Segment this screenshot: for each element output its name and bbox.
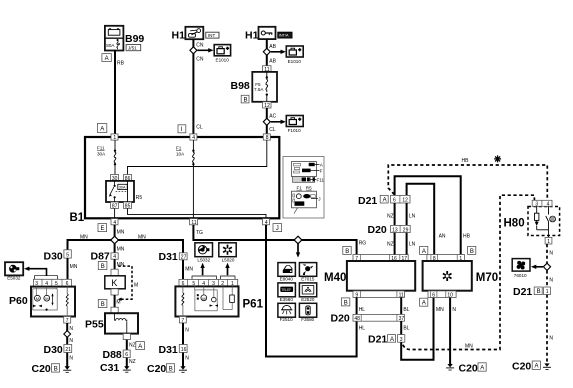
splice node on AB: [263, 48, 270, 55]
svg-text:N: N: [185, 356, 189, 362]
P60 motor symbol 1: [33, 295, 42, 307]
dashed wire N to D21 B: [546, 270, 548, 287]
svg-text:MN: MN: [185, 267, 193, 273]
svg-text:N: N: [549, 250, 553, 256]
H80 pin 1: [545, 237, 552, 245]
svg-text:CN: CN: [196, 57, 204, 63]
svg-text:F11: F11: [97, 146, 105, 151]
svg-text:J: J: [318, 197, 320, 202]
svg-text:BL: BL: [403, 307, 409, 313]
wire NZ to ground C31: [126, 358, 128, 367]
alarm ECU M40: [347, 261, 415, 291]
wire CN from H1 down: [192, 39, 194, 137]
svg-text:CL: CL: [269, 127, 276, 133]
svg-text:TG: TG: [196, 230, 203, 236]
pin 11 (B1 bottom): [190, 219, 198, 226]
relay R5 contact: [109, 181, 128, 202]
svg-text:L5032: L5032: [197, 257, 210, 262]
dashed wire N from H80 pin 1: [546, 244, 548, 263]
legend fuse row F11: [293, 177, 325, 183]
pin 1 (B1 top): [111, 134, 118, 141]
svg-text:RG: RG: [359, 241, 367, 247]
svg-text:P60: P60: [9, 295, 28, 307]
pin 11 (B98): [263, 66, 271, 73]
splice node on TG/RG: [294, 236, 302, 244]
M70 bottom connector strip pins 6 10: [428, 291, 456, 299]
wire BL M40 pin11 to D20 37: [400, 297, 402, 314]
connector code J/51: [126, 45, 141, 51]
svg-text:HL: HL: [359, 307, 366, 313]
svg-text:29: 29: [403, 227, 409, 233]
junction node MN: [111, 236, 119, 244]
svg-text:C20: C20: [512, 361, 531, 373]
svg-text:B: B: [101, 264, 105, 270]
P61 sensor symbol: [210, 297, 218, 307]
splice node on N: [64, 331, 71, 338]
svg-text:D30: D30: [44, 344, 63, 356]
svg-text:13: 13: [392, 227, 398, 233]
M70 top connector strip pins 8 1: [427, 255, 465, 262]
wire N to ground C20: [66, 353, 68, 367]
fan icon L5032: [195, 243, 213, 257]
connector letter B (below K): [98, 299, 107, 308]
wire RG to M40 pin 7: [298, 240, 357, 255]
svg-text:6: 6: [432, 292, 435, 298]
fusebox B1: [85, 137, 279, 218]
H80 pin strip 3 4: [532, 200, 552, 207]
P55 top pin: [111, 307, 118, 313]
svg-text:30A: 30A: [97, 152, 106, 157]
svg-text:A: A: [105, 56, 109, 62]
svg-text:48: 48: [354, 316, 360, 322]
svg-text:D30: D30: [44, 250, 63, 262]
connector letter B (above K): [98, 261, 107, 270]
icon grid: dome lamp F2510: [278, 303, 296, 317]
wire NZ from P55: [126, 340, 128, 350]
svg-text:MN: MN: [138, 234, 146, 240]
connector letter J (B1 bottom right): [273, 224, 282, 232]
svg-text:F11: F11: [317, 177, 325, 182]
SECTION: B1 fusebox: [70, 124, 282, 232]
svg-text:K: K: [111, 278, 117, 288]
wire BL to D21 pin 3: [400, 321, 402, 335]
connector letter A (B1 pin 1): [97, 124, 106, 133]
svg-text:MN: MN: [117, 246, 125, 252]
svg-text:B: B: [244, 97, 248, 103]
wire MN to thermostat: [114, 259, 116, 269]
svg-text:21: 21: [65, 347, 71, 353]
component location legend box: [283, 157, 324, 219]
svg-text:D21: D21: [513, 286, 532, 298]
svg-text:LN: LN: [409, 241, 416, 247]
svg-text:A: A: [383, 198, 387, 204]
arrow to F1010: [271, 120, 286, 124]
svg-text:B: B: [470, 249, 474, 255]
svg-text:P61: P61: [243, 299, 264, 311]
A/C control panel M70: [423, 261, 472, 291]
bracket over P61 pins 2-1: [221, 276, 236, 279]
wire pin8 to relay coil 86: [128, 140, 267, 174]
svg-text:H1: H1: [245, 30, 259, 42]
svg-text:RB: RB: [117, 61, 125, 67]
svg-text:12: 12: [402, 197, 408, 203]
rear window heater H80: [504, 207, 560, 236]
svg-text:MN: MN: [465, 344, 473, 350]
connector letter B (M40 pin 9): [341, 298, 349, 306]
M40 bottom connector strip pins 9 11: [353, 291, 404, 299]
legend text F1 R5: [297, 186, 313, 191]
wire AB from H1 right: [266, 39, 268, 66]
svg-text:AC: AC: [269, 114, 276, 120]
relay R5: [106, 175, 142, 210]
svg-text:76010: 76010: [514, 273, 527, 278]
arrow P61 to L5020: [225, 263, 229, 275]
svg-text:MN: MN: [117, 230, 125, 236]
svg-text:F1: F1: [176, 146, 182, 151]
svg-text:M40: M40: [324, 272, 346, 284]
fuse F11 30A: [97, 140, 116, 174]
connector letter A (M70 pin 6): [420, 298, 428, 306]
svg-text:N: N: [69, 326, 73, 332]
arrow to E1010 (right): [271, 50, 286, 54]
blower resistor unit P60: [31, 287, 75, 317]
icon grid: key fob E7015: [299, 263, 316, 277]
arrow from P60 to E5032: [24, 267, 47, 276]
svg-text:R5: R5: [136, 195, 143, 201]
battery B99: [105, 26, 124, 51]
svg-text:D31: D31: [159, 344, 178, 356]
INT box: [206, 32, 219, 38]
wire relay 85 to B1 pin 4 right: [128, 208, 267, 219]
svg-text:B98: B98: [231, 80, 250, 92]
icon grid: portable lamp F3580: [299, 303, 316, 317]
svg-text:M: M: [116, 300, 120, 306]
connector letter A (D88): [136, 342, 145, 350]
svg-text:M: M: [36, 296, 39, 301]
P60 resistor on pin 6: [66, 287, 68, 317]
SECTION: legend: [283, 157, 325, 219]
svg-text:BL: BL: [403, 326, 409, 332]
dashed wire N to ground C20 A: [546, 295, 548, 364]
battery-positive icon E1010 (right): [286, 46, 303, 57]
SECTION: top feeds: [102, 26, 303, 137]
svg-text:B99: B99: [125, 33, 144, 45]
svg-text:N: N: [452, 307, 456, 313]
svg-text:R5: R5: [306, 186, 312, 191]
svg-text:C20: C20: [32, 363, 51, 375]
svg-text:E8040: E8040: [280, 276, 294, 281]
pin 12 (B98): [263, 102, 271, 109]
H1 left icon box (key in ignition): [185, 27, 203, 39]
svg-text:E3580: E3580: [280, 297, 294, 302]
svg-text:J: J: [276, 226, 279, 232]
svg-text:E: E: [101, 226, 105, 232]
M40 top connector strip pins 7 16 17: [353, 255, 408, 262]
pin 8 (B1 top): [263, 134, 270, 141]
P60 inner assembly: [33, 287, 57, 310]
SECTION: middle lower: [193, 195, 534, 360]
svg-text:A: A: [390, 337, 394, 343]
svg-text:E1010: E1010: [216, 58, 230, 63]
svg-text:30A: 30A: [119, 186, 126, 190]
svg-text:N: N: [549, 335, 553, 341]
P60 pin 7: [64, 317, 71, 325]
svg-text:16: 16: [181, 347, 187, 353]
wire AN M70 pin8 to D21 pin 12: [407, 184, 435, 255]
svg-text:LN: LN: [409, 213, 416, 219]
svg-text:D20: D20: [331, 313, 350, 325]
wire from B1 pin 4 right down to D20 48: [266, 225, 357, 357]
connector letter E (B1 bottom left): [98, 224, 107, 232]
svg-text:HB: HB: [462, 158, 470, 164]
svg-text:NZ: NZ: [129, 343, 136, 349]
svg-text:L5020: L5020: [222, 257, 235, 262]
svg-text:A: A: [480, 366, 484, 372]
INT/A black box: [278, 32, 292, 38]
svg-text:A: A: [138, 344, 142, 350]
relay R5 coil: [127, 181, 129, 202]
fuse F1 10A: [176, 140, 195, 219]
svg-text:7.5A: 7.5A: [254, 87, 264, 92]
svg-text:HL: HL: [359, 326, 366, 332]
wire MN left branch: [68, 240, 115, 250]
relay R5 rating 30A: [118, 184, 127, 189]
svg-text:INT/A: INT/A: [279, 34, 289, 38]
connector letter I (H1 left): [178, 125, 186, 133]
svg-text:N: N: [185, 328, 189, 334]
SECTION: right: [358, 155, 560, 374]
connector letter B (M70 pin 1): [468, 246, 476, 254]
svg-text:F1010: F1010: [288, 128, 301, 133]
P61 pin 7: [179, 317, 186, 324]
fuse B98 box: [252, 72, 277, 102]
svg-text:N: N: [549, 277, 553, 283]
battery-positive icon F1010: [286, 116, 303, 127]
icon grid: display E3580: [278, 283, 296, 297]
svg-text:MN: MN: [117, 262, 125, 268]
wire HB M70 pin1 to D21 pin 6: [395, 176, 461, 254]
arrow continuation down from splice: [296, 244, 300, 258]
dashed wire HB to H80 pin 4: [388, 165, 547, 201]
splice node on AC: [263, 118, 270, 125]
svg-text:NZ: NZ: [387, 241, 394, 247]
wire N below P60: [66, 323, 68, 344]
H80 contact and indicator: [546, 206, 556, 237]
svg-text:C20: C20: [459, 363, 478, 375]
battery-positive icon E1010 (left): [214, 45, 230, 56]
svg-text:C20: C20: [147, 363, 166, 375]
A/C control unit P61: [175, 286, 238, 316]
svg-text:E1010: E1010: [288, 59, 302, 64]
P60 motor symbol 2: [44, 293, 54, 311]
svg-text:N: N: [69, 356, 73, 362]
wire N M70 pin10 to ground: [449, 298, 451, 365]
K thermostat top pin: [111, 269, 118, 276]
fuse F5 element: [266, 72, 268, 102]
connector letter B (B98): [241, 95, 249, 103]
svg-text:H1: H1: [172, 30, 186, 42]
svg-text:MN: MN: [80, 234, 88, 240]
wire LN D21-12 to D20-29: [406, 203, 408, 225]
wire relay 87 to B1 pin 4 left: [114, 208, 116, 219]
compressor clutch P55: [85, 313, 138, 333]
svg-text:M: M: [45, 296, 48, 301]
svg-text:F3580: F3580: [301, 317, 314, 322]
svg-text:AB: AB: [269, 44, 276, 50]
svg-text:M: M: [134, 283, 138, 289]
svg-text:E7015: E7015: [301, 276, 315, 281]
mechanical link (dashed): [118, 266, 139, 301]
svg-text:D31: D31: [159, 251, 178, 263]
wire MN D30 to P60: [67, 258, 69, 279]
icon grid: receiver E2520: [299, 283, 316, 297]
svg-text:80A: 80A: [106, 43, 115, 48]
thermostat K: [105, 276, 125, 289]
svg-text:J/51: J/51: [128, 46, 137, 51]
legend fusebox top view: [292, 162, 324, 177]
P61 resistor on pin 6: [182, 286, 184, 316]
svg-text:N: N: [69, 338, 73, 344]
svg-text:D21: D21: [358, 195, 377, 207]
svg-text:A: A: [422, 301, 426, 307]
svg-text:6: 6: [125, 352, 128, 358]
wire TG from B1 pin 11: [193, 225, 298, 240]
svg-text:F2510: F2510: [280, 317, 293, 322]
wire MN D31 to P61: [182, 260, 184, 280]
wire HL M40 pin9 to D20 48: [356, 297, 358, 314]
heater blower icon E5032: [5, 262, 23, 275]
svg-text:MN: MN: [436, 307, 444, 313]
wire M to P55: [114, 295, 116, 307]
M70 snowflake icon: [443, 271, 452, 281]
bracket over P61 pins 5-3: [192, 276, 217, 279]
svg-text:A: A: [100, 127, 104, 133]
P61 resistor block on pin 1: [223, 286, 234, 309]
svg-text:D21: D21: [368, 333, 387, 345]
svg-text:27: 27: [181, 255, 187, 261]
svg-text:3: 3: [400, 337, 403, 343]
svg-text:B: B: [169, 366, 173, 372]
fuse 80A inside B99: [106, 39, 119, 49]
wire N below P61: [182, 323, 184, 345]
icon grid: door switch E8040: [278, 263, 296, 277]
ground node icon 76010: [512, 259, 530, 272]
optional-variant star symbol: [494, 155, 501, 162]
pin 4 (B1 bottom left): [111, 219, 118, 226]
svg-text:E2520: E2520: [301, 297, 315, 302]
pin 4 (B1 top): [190, 134, 197, 141]
svg-text:B: B: [537, 289, 541, 295]
P61 pin strip 6 5 4 3 2 1: [179, 279, 238, 287]
svg-text:D88: D88: [103, 349, 122, 361]
splice node on CN: [190, 47, 197, 54]
arrow to E1010 (left): [197, 48, 213, 52]
svg-text:6: 6: [393, 197, 396, 203]
splice node on N: [543, 263, 550, 270]
svg-text:D20: D20: [368, 224, 387, 236]
K thermostat bottom pin: [111, 289, 118, 295]
H80 resistor element: [535, 206, 549, 230]
svg-text:AB: AB: [269, 59, 276, 65]
svg-text:INT: INT: [208, 33, 216, 38]
connector letter A (M70 pin 8): [420, 246, 428, 254]
svg-text:M70: M70: [476, 272, 498, 284]
wire NZ D20-13 to M40-16: [394, 233, 396, 255]
svg-text:E5032: E5032: [7, 276, 21, 281]
bracket over P60 pins 3-5: [35, 276, 58, 279]
svg-text:A: A: [535, 364, 539, 370]
svg-text:B: B: [101, 302, 105, 308]
wire N to ground C20: [182, 353, 184, 367]
arrow to node icon 76010: [531, 265, 543, 269]
legend relay plate view: [292, 191, 321, 213]
P60 pin strip 3 4 5 6: [33, 279, 71, 287]
svg-text:MN: MN: [70, 264, 78, 270]
svg-text:B1: B1: [70, 212, 85, 224]
svg-text:P55: P55: [85, 318, 104, 330]
wire LN D20-29 to M40-17: [406, 233, 408, 255]
svg-text:A: A: [422, 249, 426, 255]
svg-text:B: B: [344, 300, 348, 306]
svg-text:H80: H80: [504, 217, 525, 229]
svg-text:1: 1: [546, 289, 549, 295]
svg-text:HB: HB: [463, 234, 471, 240]
arrow P61 to L5032: [200, 263, 204, 275]
svg-text:NZ: NZ: [129, 359, 136, 365]
svg-text:AN: AN: [439, 234, 446, 240]
connector letter A (B99): [102, 54, 111, 62]
wire MN from B1 pin 4 to junction: [114, 225, 116, 240]
svg-text:B: B: [345, 249, 349, 255]
P61 inner assembly: [195, 286, 218, 310]
wire MN right branch to D31: [115, 240, 183, 253]
svg-text:CN: CN: [196, 42, 204, 48]
P55 bottom pin: [123, 334, 130, 340]
svg-text:B: B: [54, 366, 58, 372]
wire AC/CL to B1 pin 8: [266, 108, 268, 137]
svg-text:NZ: NZ: [387, 213, 394, 219]
svg-text:M: M: [202, 296, 205, 301]
H1 right icon box (key): [259, 27, 276, 39]
svg-text:C31: C31: [100, 362, 119, 374]
snowflake icon L5020: [219, 243, 236, 257]
wire MN D21-3 to M70 pin 6: [401, 297, 433, 360]
svg-text:F: F: [320, 168, 323, 173]
connector letter B (M40 pin 7): [343, 246, 351, 254]
svg-text:10A: 10A: [176, 152, 185, 157]
svg-text:CL: CL: [196, 125, 203, 131]
svg-text:TELEF: TELEF: [281, 288, 291, 292]
SECTION: left lower: [5, 225, 264, 375]
P61 motor symbol: [197, 294, 207, 301]
wire RB from B99 to B1 pin 1: [114, 51, 116, 138]
svg-text:F1: F1: [297, 186, 303, 191]
wire MN from junction down to D87: [114, 244, 116, 253]
svg-text:D87: D87: [91, 250, 110, 262]
dashed wire MN to H80 pin 3: [403, 195, 535, 349]
pin 4 (B1 bottom right): [263, 219, 270, 226]
wire NZ D21-6 to D20-13: [394, 203, 396, 225]
svg-text:5: 5: [66, 252, 69, 258]
